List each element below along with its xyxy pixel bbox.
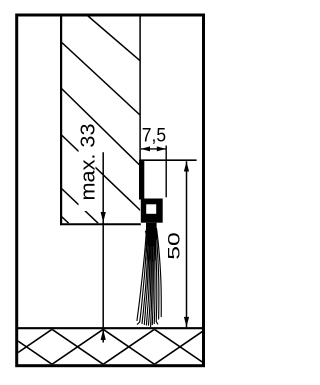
floor top line xyxy=(16,327,204,329)
arrow left xyxy=(141,146,150,151)
wall right edge xyxy=(139,16,141,161)
brush holder block xyxy=(141,199,163,223)
wall bottom line xyxy=(60,223,141,225)
dim line max.33 xyxy=(102,152,104,342)
profile front thin line / 7,5 right extension xyxy=(165,146,167,198)
arrow down at floor xyxy=(184,317,189,327)
svg-text:max. 33: max. 33 xyxy=(76,124,99,201)
wall left edge xyxy=(60,16,62,225)
outer frame xyxy=(17,15,204,366)
brush bundle root xyxy=(145,231,158,246)
arrow right xyxy=(157,146,166,151)
profile back bar xyxy=(139,160,144,200)
svg-text:50: 50 xyxy=(166,232,184,260)
dim line 50 xyxy=(186,161,188,327)
arrow up at floor top xyxy=(101,330,106,341)
wall hatching xyxy=(61,16,141,223)
arrow up at profile top xyxy=(184,162,189,172)
brush clamp stem xyxy=(146,223,157,231)
holder notch xyxy=(146,204,156,214)
floor cross hatching xyxy=(1,329,206,364)
arrow down at wall bottom xyxy=(101,212,106,223)
dim line 7,5 xyxy=(141,148,166,150)
profile top line xyxy=(139,159,196,161)
white halo behind max.33 label xyxy=(79,123,96,211)
brush bristles xyxy=(137,229,161,327)
svg-text:7,5: 7,5 xyxy=(142,124,166,146)
